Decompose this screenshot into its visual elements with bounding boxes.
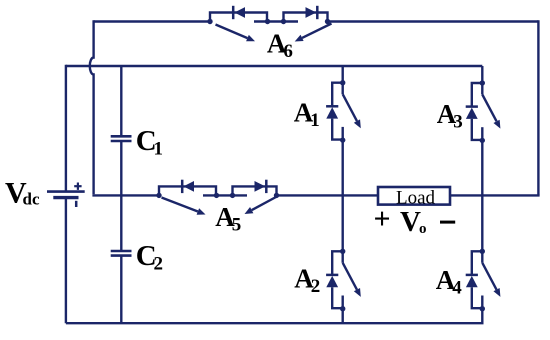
svg-text:+: + [374, 202, 391, 235]
svg-text:4: 4 [452, 278, 462, 299]
svg-text:dc: dc [23, 190, 40, 209]
svg-text:2: 2 [154, 254, 164, 275]
svg-text:1: 1 [310, 110, 320, 131]
svg-text:3: 3 [453, 111, 463, 132]
svg-text:5: 5 [232, 215, 242, 236]
svg-text:V: V [400, 206, 421, 238]
svg-text:1: 1 [154, 138, 164, 159]
svg-text:2: 2 [311, 276, 321, 297]
svg-text:6: 6 [283, 41, 293, 62]
svg-text:o: o [419, 221, 427, 237]
